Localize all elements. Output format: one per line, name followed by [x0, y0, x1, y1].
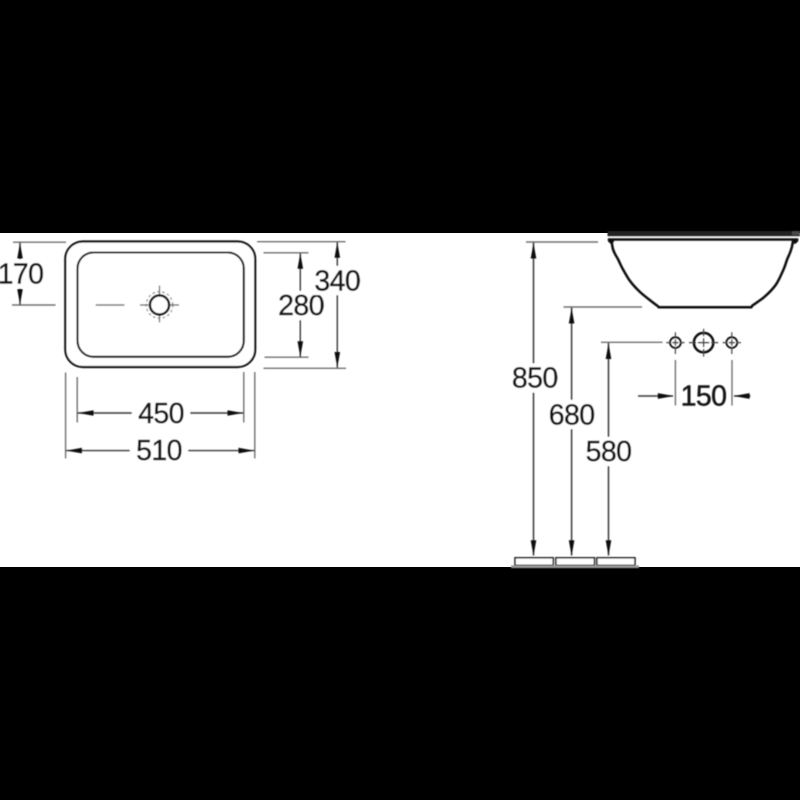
arrow 510 right	[239, 448, 255, 454]
dimension line 170	[19, 243, 21, 306]
arrow 150 left	[658, 393, 674, 399]
label 850	[512, 364, 558, 393]
drain hole circle	[150, 295, 169, 314]
extension line top-right (340)	[257, 241, 346, 243]
extension line 510 left	[65, 373, 67, 459]
dimension line 510	[66, 450, 254, 452]
drain centerline horizontal	[140, 304, 179, 306]
extension line left at centerline (170 bottom)	[12, 304, 56, 306]
rim right cap	[792, 239, 798, 244]
label 450	[132, 402, 190, 426]
arrow 170 up	[17, 243, 23, 259]
label 680	[549, 400, 595, 429]
extension line 850 top	[526, 241, 598, 243]
svg-text:450: 450	[138, 398, 184, 430]
faucet hole left crosshair	[666, 332, 684, 354]
bottom black band	[0, 567, 800, 800]
floor foot left	[515, 558, 553, 566]
arrow 680 down	[569, 540, 575, 556]
extension line 450 left	[76, 377, 78, 423]
extension line 340 bottom	[264, 367, 347, 369]
arrow 580 down	[606, 540, 612, 556]
faucet hole center circle	[694, 333, 713, 352]
dimension line 680	[571, 308, 573, 556]
dimension line 580	[608, 343, 610, 556]
svg-text:170: 170	[0, 259, 43, 291]
dimension line 850	[533, 243, 535, 556]
arrow 280 up	[298, 253, 304, 268]
floor shadow strip	[511, 565, 639, 568]
svg-text:340: 340	[314, 265, 360, 297]
basin inner bowl edge (plan)	[78, 253, 244, 357]
extension line 580 top	[601, 341, 663, 343]
arrow 510 left	[66, 448, 82, 454]
arrow 450 right	[228, 410, 244, 416]
basin rim line	[608, 238, 798, 240]
extension line top-left (170)	[13, 241, 66, 243]
rim left cap	[608, 239, 614, 244]
countertop bar right light patch	[792, 231, 800, 235]
svg-text:510: 510	[136, 435, 182, 467]
extension line 450 right	[243, 372, 245, 423]
arrow 850 up	[531, 243, 537, 259]
arrow 580 up	[606, 344, 612, 360]
faucet hole right crosshair	[723, 332, 741, 354]
label 580	[586, 437, 632, 466]
faucet hole center crosshair	[689, 329, 718, 357]
arrow 850 down	[531, 540, 537, 556]
extension line 680 top	[564, 306, 643, 308]
extension line 280 bottom	[265, 356, 309, 358]
arrow 680 up	[569, 308, 575, 324]
arrow 450 left	[78, 410, 94, 416]
arrow 340 down	[335, 352, 341, 368]
arrow 340 up	[335, 242, 341, 257]
label 340	[314, 266, 360, 295]
faucet hole left circle	[670, 337, 681, 348]
svg-text:150: 150	[681, 380, 727, 412]
countertop dark bar	[608, 231, 800, 236]
drain dashed circle	[146, 292, 173, 319]
arrow 150 right	[734, 393, 750, 399]
drain centerline vertical	[159, 286, 161, 323]
basin outer rim (plan)	[65, 242, 255, 368]
arrow 170 down	[17, 289, 23, 305]
floor foot middle	[556, 558, 595, 566]
extension line 510 right	[254, 372, 256, 458]
centerline left long dash	[96, 304, 125, 306]
top black band	[0, 0, 800, 233]
extension line 150 right	[731, 360, 733, 406]
dimension line 450	[78, 412, 244, 414]
label 280	[278, 291, 324, 320]
extension line 150 left	[674, 360, 676, 406]
svg-text:580: 580	[586, 436, 632, 468]
label 510	[130, 439, 188, 463]
label 170	[0, 260, 44, 289]
faucet hole right circle	[726, 337, 737, 348]
dimension 150 left arrow tail	[638, 395, 673, 397]
bowl outline	[612, 241, 793, 307]
arrow 280 down	[298, 341, 304, 357]
dimension 150 right arrow tail	[734, 395, 751, 397]
svg-text:850: 850	[512, 363, 558, 395]
extension line 280 top	[264, 252, 309, 254]
dimension line 340	[336, 242, 338, 368]
dimension line 280	[299, 253, 301, 357]
floor foot right	[597, 558, 635, 566]
svg-text:680: 680	[549, 400, 595, 432]
